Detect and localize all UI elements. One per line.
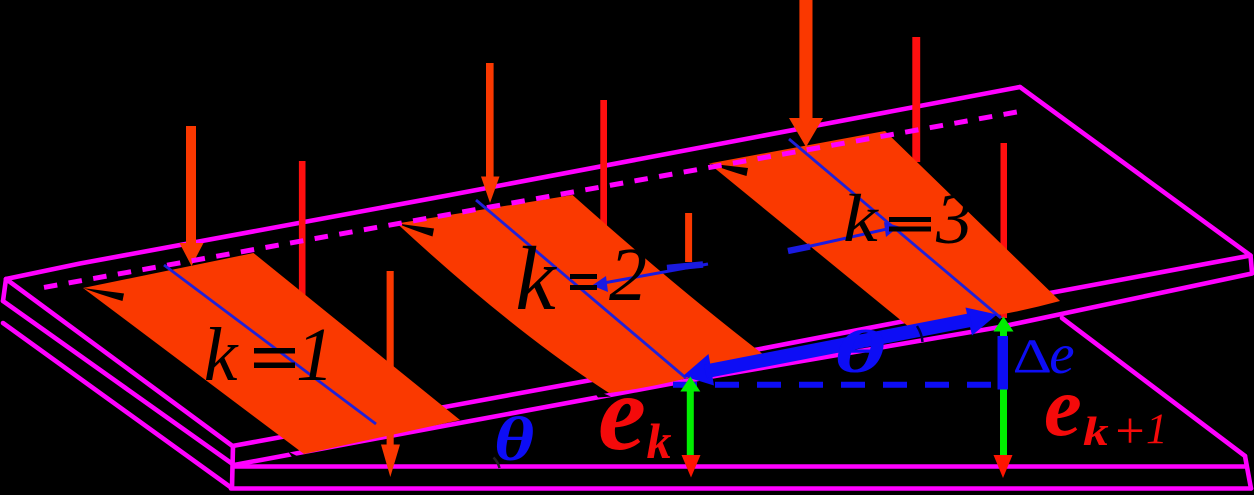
base bottom front edge H2 [231,486,1251,491]
label k=3 [843,179,972,259]
svg-text:1: 1 [1146,406,1168,453]
front top edge of tilted plate F1a [233,256,1251,447]
angle tick on theta arrow [917,326,923,342]
black arrowhead stripe 1 [83,288,124,301]
arrow G [912,37,920,162]
svg-text:k: k [647,413,672,469]
svg-text:θ: θ [494,405,534,474]
black arrowhead stripe 2 [397,224,434,237]
arrow B [299,161,306,301]
far top edge of tilted plate [6,87,1020,279]
arrow F [789,0,823,147]
svg-text:k: k [1083,410,1109,455]
stripe k=1 [83,253,460,454]
svg-text:k: k [515,228,557,329]
right side vertical edge of plate [1251,256,1253,273]
svg-text:θ: θ [834,318,885,385]
svg-text:k: k [204,313,239,397]
front bottom edge of tilted plate F1b [234,274,1252,466]
dashed far bottom edge [44,110,1028,287]
arrow D [481,63,500,203]
base right far diagonal [1062,318,1245,456]
left face vertical edge [3,279,6,301]
base right corner edge [1245,456,1251,489]
svg-text:1: 1 [296,313,334,397]
black arrowhead stripe 3 [709,164,748,177]
arrow A [180,126,204,266]
svg-text:e: e [1044,360,1082,454]
label k=2 [515,228,647,329]
left middle diagonal D2 [3,301,234,465]
black arrowhead at stripe 2 bottom-left corner [592,389,611,398]
svg-text:e: e [598,354,646,473]
arrow C [381,271,400,477]
arrow H [685,213,692,262]
centre line stripe 1 [164,265,376,424]
leader arrow k=2 [592,264,708,292]
svg-text:+: + [1115,403,1144,460]
left bottom diagonal D3 [3,323,231,488]
stripe k=3 [709,131,1060,327]
black arrowhead at stripe 1 bottom-left corner [288,452,305,462]
angle tick at lower-left theta [494,458,500,469]
arrow I [1001,143,1008,318]
centre line stripe 3 [789,139,1001,318]
leader arrow k=3 [788,222,899,251]
label k=1 [204,313,334,397]
stripe k=2 [397,195,764,393]
svg-text:k: k [843,181,879,256]
base top front edge H1 [234,464,1245,469]
front-left corner vertical [232,446,233,488]
centre line stripe 2 [476,200,686,378]
arrow E [600,100,607,228]
left top diagonal D1 [6,279,233,446]
svg-text:2: 2 [609,233,647,317]
right edge of tilted plate top face [1020,87,1251,256]
svg-text:3: 3 [935,179,972,259]
